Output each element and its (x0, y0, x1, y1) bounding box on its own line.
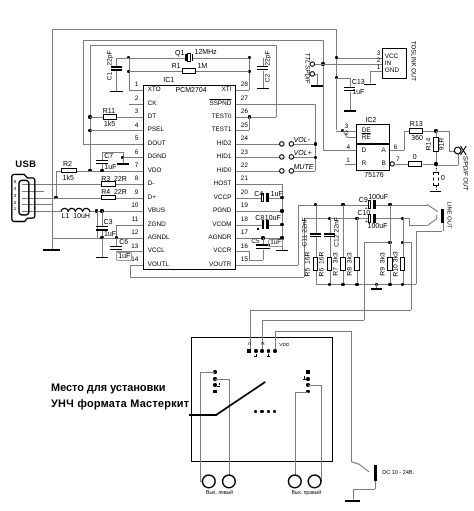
node row1-R9 (388, 203, 391, 206)
connector LINE OUT jack (441, 209, 445, 223)
capacitor C9 100uF (368, 200, 371, 209)
wire XTI vertical (249, 58, 250, 90)
wire ZGND pin11 (116, 225, 142, 226)
wire +5V top rail (52, 29, 337, 30)
node rail-R9 (388, 283, 391, 286)
capacitor C4 1uF (236, 198, 263, 199)
node DGND (121, 156, 124, 159)
wire VOUTR pin15 (236, 265, 299, 266)
wire TTL pin2 to gnd (315, 74, 317, 75)
wire DOUT left vertical (83, 40, 84, 144)
connector TOSLINK OUT (382, 48, 407, 79)
resistor R6 16R (327, 257, 333, 271)
output circles right (284, 471, 330, 493)
connector DC jack (351, 331, 352, 462)
ground HOST net (276, 250, 288, 252)
wire out left 2 (215, 379, 229, 380)
resistor R7 3k3 (343, 205, 344, 258)
amp block (191, 337, 333, 463)
node VDD-PSEL (88, 129, 91, 132)
wire crystal left (116, 58, 185, 59)
wire jack contact1 (426, 203, 442, 215)
resistor 0 ohm (394, 164, 407, 165)
node row2-R10 (401, 217, 404, 220)
node XTI-crystal (248, 56, 251, 59)
wire USB row4 (22, 204, 52, 205)
node C8 (280, 223, 283, 226)
node row1-C11 (314, 203, 317, 206)
node C3-AGND (100, 236, 103, 239)
wire AGNDR pin17 (236, 238, 282, 239)
wire DOUT pin5 (83, 144, 143, 145)
capacitor C3 1uF (102, 211, 103, 226)
node 0-R14 (434, 162, 437, 165)
wire 5V takeoff (97, 211, 98, 238)
wire HID2 pin24 (236, 144, 280, 145)
wire crystal right (192, 58, 249, 59)
wire VOUTL row (304, 218, 370, 219)
node C4 (280, 196, 283, 199)
wire DOUT rail drop (323, 40, 324, 151)
wire PSEL pin4 (90, 130, 143, 131)
wire USB row5 VBUS (22, 211, 61, 212)
wire VDD left vertical (90, 45, 91, 171)
ground rail (376, 284, 377, 288)
wire USB row3 (22, 198, 102, 199)
wire tap left-channel (403, 242, 412, 243)
IC1 pin numbers left (135, 82, 139, 88)
resistor R1 1M (129, 71, 182, 72)
node VCC toslink (335, 56, 338, 59)
capacitor C5 1uF (263, 238, 264, 244)
resistor R11 1k5 (90, 117, 103, 118)
resistor R13 360 (404, 131, 409, 132)
resistor R14 91R (436, 131, 437, 137)
node TTL-SPDIF (321, 62, 324, 65)
resistor R9 3k3 (390, 205, 391, 258)
wire VBUS after L1 (89, 211, 142, 212)
capacitor C8 10uF (236, 225, 263, 226)
node tap-R10 (401, 241, 404, 244)
amp right pad column (306, 370, 310, 374)
wire USB row2 stub (22, 191, 44, 192)
connector TTL SPDIF circles (306, 58, 322, 84)
node AGNDR (280, 236, 283, 239)
resistor R8 3k3 (357, 218, 358, 257)
IC IC1 PCM2704 (143, 85, 236, 270)
wire VOL- to common (294, 144, 316, 145)
node VDD-R11 (88, 115, 91, 118)
node XTI-R1 (248, 70, 251, 73)
wire tap right-channel (364, 242, 390, 243)
ground USB (43, 249, 60, 251)
inductor L1 10uH (60, 204, 96, 216)
IC1 pin names right column (221, 87, 231, 93)
wire R stub (345, 164, 356, 165)
wire HID1 pin23 (236, 157, 280, 158)
amp pad gnd marks (256, 354, 257, 356)
jumper circles MUTE (278, 164, 308, 178)
amp pads top (247, 349, 251, 353)
ground DGND (123, 157, 124, 163)
node tap-R9 (388, 241, 391, 244)
output circles left (198, 471, 244, 493)
wire GND toslink (370, 71, 382, 72)
node PGND (280, 209, 283, 212)
wire MUTE to common (294, 171, 316, 172)
wire VOUTL pin14 (130, 265, 143, 266)
resistor R5 16R (313, 257, 319, 271)
resistor R3 22R (101, 181, 116, 187)
wire SPDIF bottom link (436, 165, 458, 166)
wire DGND pin6 (123, 157, 143, 158)
wire XTO vertical (129, 58, 130, 90)
wire DC to ground (375, 481, 376, 489)
wire XTI pin28 (236, 90, 250, 91)
amp pad labels (248, 343, 251, 348)
node VOL- (314, 142, 317, 145)
wire jack contact2 (403, 218, 410, 219)
amp center dots (254, 410, 257, 413)
ground toslink (364, 84, 376, 86)
crystal Q1 (185, 54, 186, 61)
node TEST0-TEST1 (248, 115, 251, 118)
wire D input (323, 150, 356, 151)
node XTO-crystal (127, 56, 130, 59)
ground C3 (102, 238, 103, 257)
ground dashed-0 (430, 191, 441, 193)
node row2-R8 (355, 217, 358, 220)
wire DE/RE (336, 131, 356, 132)
wire XTO pin1 (129, 90, 143, 91)
wire SSPND pin27 (236, 104, 316, 105)
capacitor C6 1uF (116, 238, 117, 246)
wire VCC toslink (336, 29, 337, 130)
node rail-gnd (375, 283, 378, 286)
annotation leader (189, 414, 217, 416)
wire HID0 pin22 (236, 171, 280, 172)
resistor R4 22R (101, 195, 116, 201)
node rail-R7 (341, 283, 344, 286)
wire CK stub pin2 (129, 104, 143, 105)
node rail-R8 (355, 283, 358, 286)
resistor 0 dashed (436, 165, 437, 172)
wire L feed drop (250, 310, 251, 349)
IC1 pin names left column (148, 87, 161, 93)
resistor R2 1k5 (56, 171, 61, 172)
wire USB row1 (22, 184, 102, 185)
node XTO-R1 (127, 70, 130, 73)
node C13 (335, 76, 338, 79)
node VBUS-5V (95, 209, 98, 212)
wire TEST0 pin26 (236, 117, 277, 118)
wire SPDIF top link (436, 131, 449, 132)
node ZGND-AGND (115, 236, 118, 239)
wire jack sleeve return (443, 223, 444, 231)
wire VDD feed (275, 331, 352, 332)
node C7-VDD (100, 169, 103, 172)
capacitor C11 22nF (316, 205, 317, 234)
label MUTE (294, 164, 314, 171)
annotation text (51, 383, 165, 394)
node AGNDR-C5 (261, 236, 264, 239)
wire TEST1 pin25 (236, 130, 250, 131)
wire out right 1 (295, 392, 308, 393)
node R13-R14 (434, 129, 437, 132)
wire VOL+ to common (294, 157, 316, 158)
wire IN toslink (323, 64, 382, 65)
connector USB mini-B (8, 170, 48, 230)
capacitor C1 22pF (116, 58, 117, 66)
wire TTL pin1 (315, 64, 323, 65)
capacitor C13 1uF (336, 78, 349, 79)
label VOL- (294, 137, 310, 144)
wire PGND pin19 (236, 211, 282, 212)
wire VDD top rail (90, 45, 276, 46)
wire +5V left vertical (52, 29, 53, 249)
amp left pad column (213, 370, 217, 374)
IC1 pin numbers right (241, 82, 248, 88)
capacitor C12 22nF (330, 218, 331, 233)
ground TTL (311, 85, 323, 87)
ground DC (345, 500, 360, 502)
wire out right 2 (308, 385, 321, 386)
wire ground rail (316, 284, 416, 285)
wire out left 1 (200, 372, 214, 373)
node rail-R10 (401, 283, 404, 286)
IC IC2 75176 (356, 124, 390, 171)
node row2-C12 (328, 217, 331, 220)
wire VCCR pin16 (236, 251, 250, 252)
node row1-R7 (341, 203, 344, 206)
node rail-R6 (328, 283, 331, 286)
connector SPDIF OUT (450, 141, 474, 161)
node VBUS-C3 (100, 209, 103, 212)
jumper circles VOL+ (278, 150, 308, 164)
wire VDD pin7 (90, 171, 143, 172)
capacitor C7 1uF (102, 152, 123, 153)
wire DOUT top rail (83, 40, 323, 41)
node VOL+ (314, 156, 317, 159)
node VDD-pin7 (88, 169, 91, 172)
jumper circles VOL- (278, 137, 308, 151)
wire R feed drop (262, 320, 263, 349)
capacitor C10 100uF (368, 214, 371, 223)
label VOL+ (294, 150, 312, 157)
pin B bubble (387, 159, 397, 169)
wire VOUTR row (298, 205, 369, 206)
resistor R10 3k3 (403, 218, 404, 257)
node R2-Dplus (54, 196, 57, 199)
wire HOST pin21 (236, 184, 282, 185)
USB pin numbers (14, 181, 17, 186)
capacitor C2 22pF (263, 58, 264, 66)
wire AGNDL pin12 (102, 238, 143, 239)
wire R2 pullup vertical (56, 171, 57, 198)
wire A output (390, 150, 404, 151)
